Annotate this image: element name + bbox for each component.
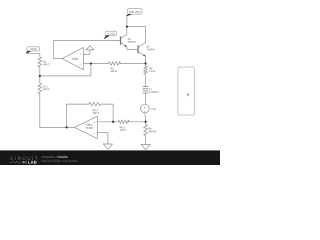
label Le xyxy=(149,88,159,93)
wire: source to node J6 xyxy=(144,113,147,125)
wire: OA1 - input to ground G1 xyxy=(97,133,108,144)
label Q2 xyxy=(147,46,155,51)
flag V_b(t) xyxy=(104,31,117,39)
resistor R1.1 xyxy=(38,83,42,93)
label Vout xyxy=(151,108,156,110)
transistor Q2 collector xyxy=(138,42,145,47)
logo CIRCUIT xyxy=(10,157,37,160)
resistor Rb.1 xyxy=(118,120,129,124)
annotation box glyph xyxy=(187,93,190,97)
footer line 2 xyxy=(42,160,78,163)
resistor R1 xyxy=(38,57,42,67)
ground G1 xyxy=(103,144,112,149)
wire: R1.1 down and right to OA1 output xyxy=(40,93,75,127)
logo LAB xyxy=(28,161,37,164)
wire: R1 to R1.1 xyxy=(39,67,41,83)
resistor Re xyxy=(144,66,148,74)
wire: top rail to Q2 collector xyxy=(127,27,146,43)
op-amp OA1 marks xyxy=(85,121,95,133)
wire: Rb.1 to right bus xyxy=(128,121,146,123)
voltage source Vout body xyxy=(141,104,150,113)
op-amp OA2 body xyxy=(62,47,83,69)
flag Vin(t) xyxy=(26,47,40,54)
footer banner xyxy=(0,150,220,165)
wire: feedback riser from OA1 output node xyxy=(67,104,89,127)
Q2 emitter arrowhead xyxy=(143,54,146,56)
node J1 xyxy=(90,62,92,64)
label Rb xyxy=(149,128,157,133)
wire: OA2 - node down and left to R1 chain xyxy=(40,64,91,76)
footer line 1 xyxy=(42,156,57,158)
power supply arrow at OA2 + input xyxy=(83,46,94,55)
label Rb.1 xyxy=(120,126,126,131)
node J2 xyxy=(144,62,146,64)
ground G2 xyxy=(141,145,150,150)
node J7 xyxy=(126,25,128,27)
transistor Q2 base bar xyxy=(137,45,139,53)
node J6 xyxy=(144,121,146,123)
node J5 xyxy=(112,121,114,123)
flag Vdc 24V xyxy=(126,9,142,17)
wire: Vin flag stub into R1 xyxy=(27,54,40,57)
transistor Q2 emitter xyxy=(138,51,145,63)
transistor Q1 emitter to Q2 base xyxy=(121,43,139,50)
label R1.1 xyxy=(43,86,49,90)
node J4 xyxy=(65,126,67,128)
wire: R2 to right bus xyxy=(120,63,146,65)
wire: Le to source xyxy=(145,93,147,104)
label Rb.2 xyxy=(93,109,99,114)
wire: Re to Le xyxy=(145,74,147,86)
label Re xyxy=(149,67,155,72)
wire: Rb.2 down to OA1 + input xyxy=(101,104,114,122)
label Q1 xyxy=(128,38,136,43)
annotation box xyxy=(178,67,195,115)
resistor R2 xyxy=(109,62,121,66)
resistor Rb.2 (feedback) xyxy=(89,102,101,106)
logo diode wire xyxy=(10,161,27,164)
wire: bus into Re xyxy=(145,64,147,67)
inductor Le xyxy=(143,87,148,93)
op-amp OA1 body xyxy=(74,116,97,138)
resistor Rb xyxy=(144,125,148,136)
wire: Vdc flag drop to top rail xyxy=(126,16,128,27)
source Vout marks xyxy=(144,106,146,111)
wire: Rb to ground G2 xyxy=(145,135,147,144)
Q1 emitter arrowhead xyxy=(124,45,127,47)
wire: OA2 - input to R2 xyxy=(83,63,108,65)
op-amp OA2 marks xyxy=(72,53,81,64)
transistor Q1 base bar xyxy=(120,36,122,44)
wire: OA1 + input to Rb.1 xyxy=(97,121,118,123)
transistor Q1 collector xyxy=(121,27,127,39)
label R1 xyxy=(43,61,49,65)
label R2 xyxy=(111,67,117,72)
wire: OA2 output loop to Q1 base xyxy=(54,41,121,59)
node J3 xyxy=(39,75,41,77)
